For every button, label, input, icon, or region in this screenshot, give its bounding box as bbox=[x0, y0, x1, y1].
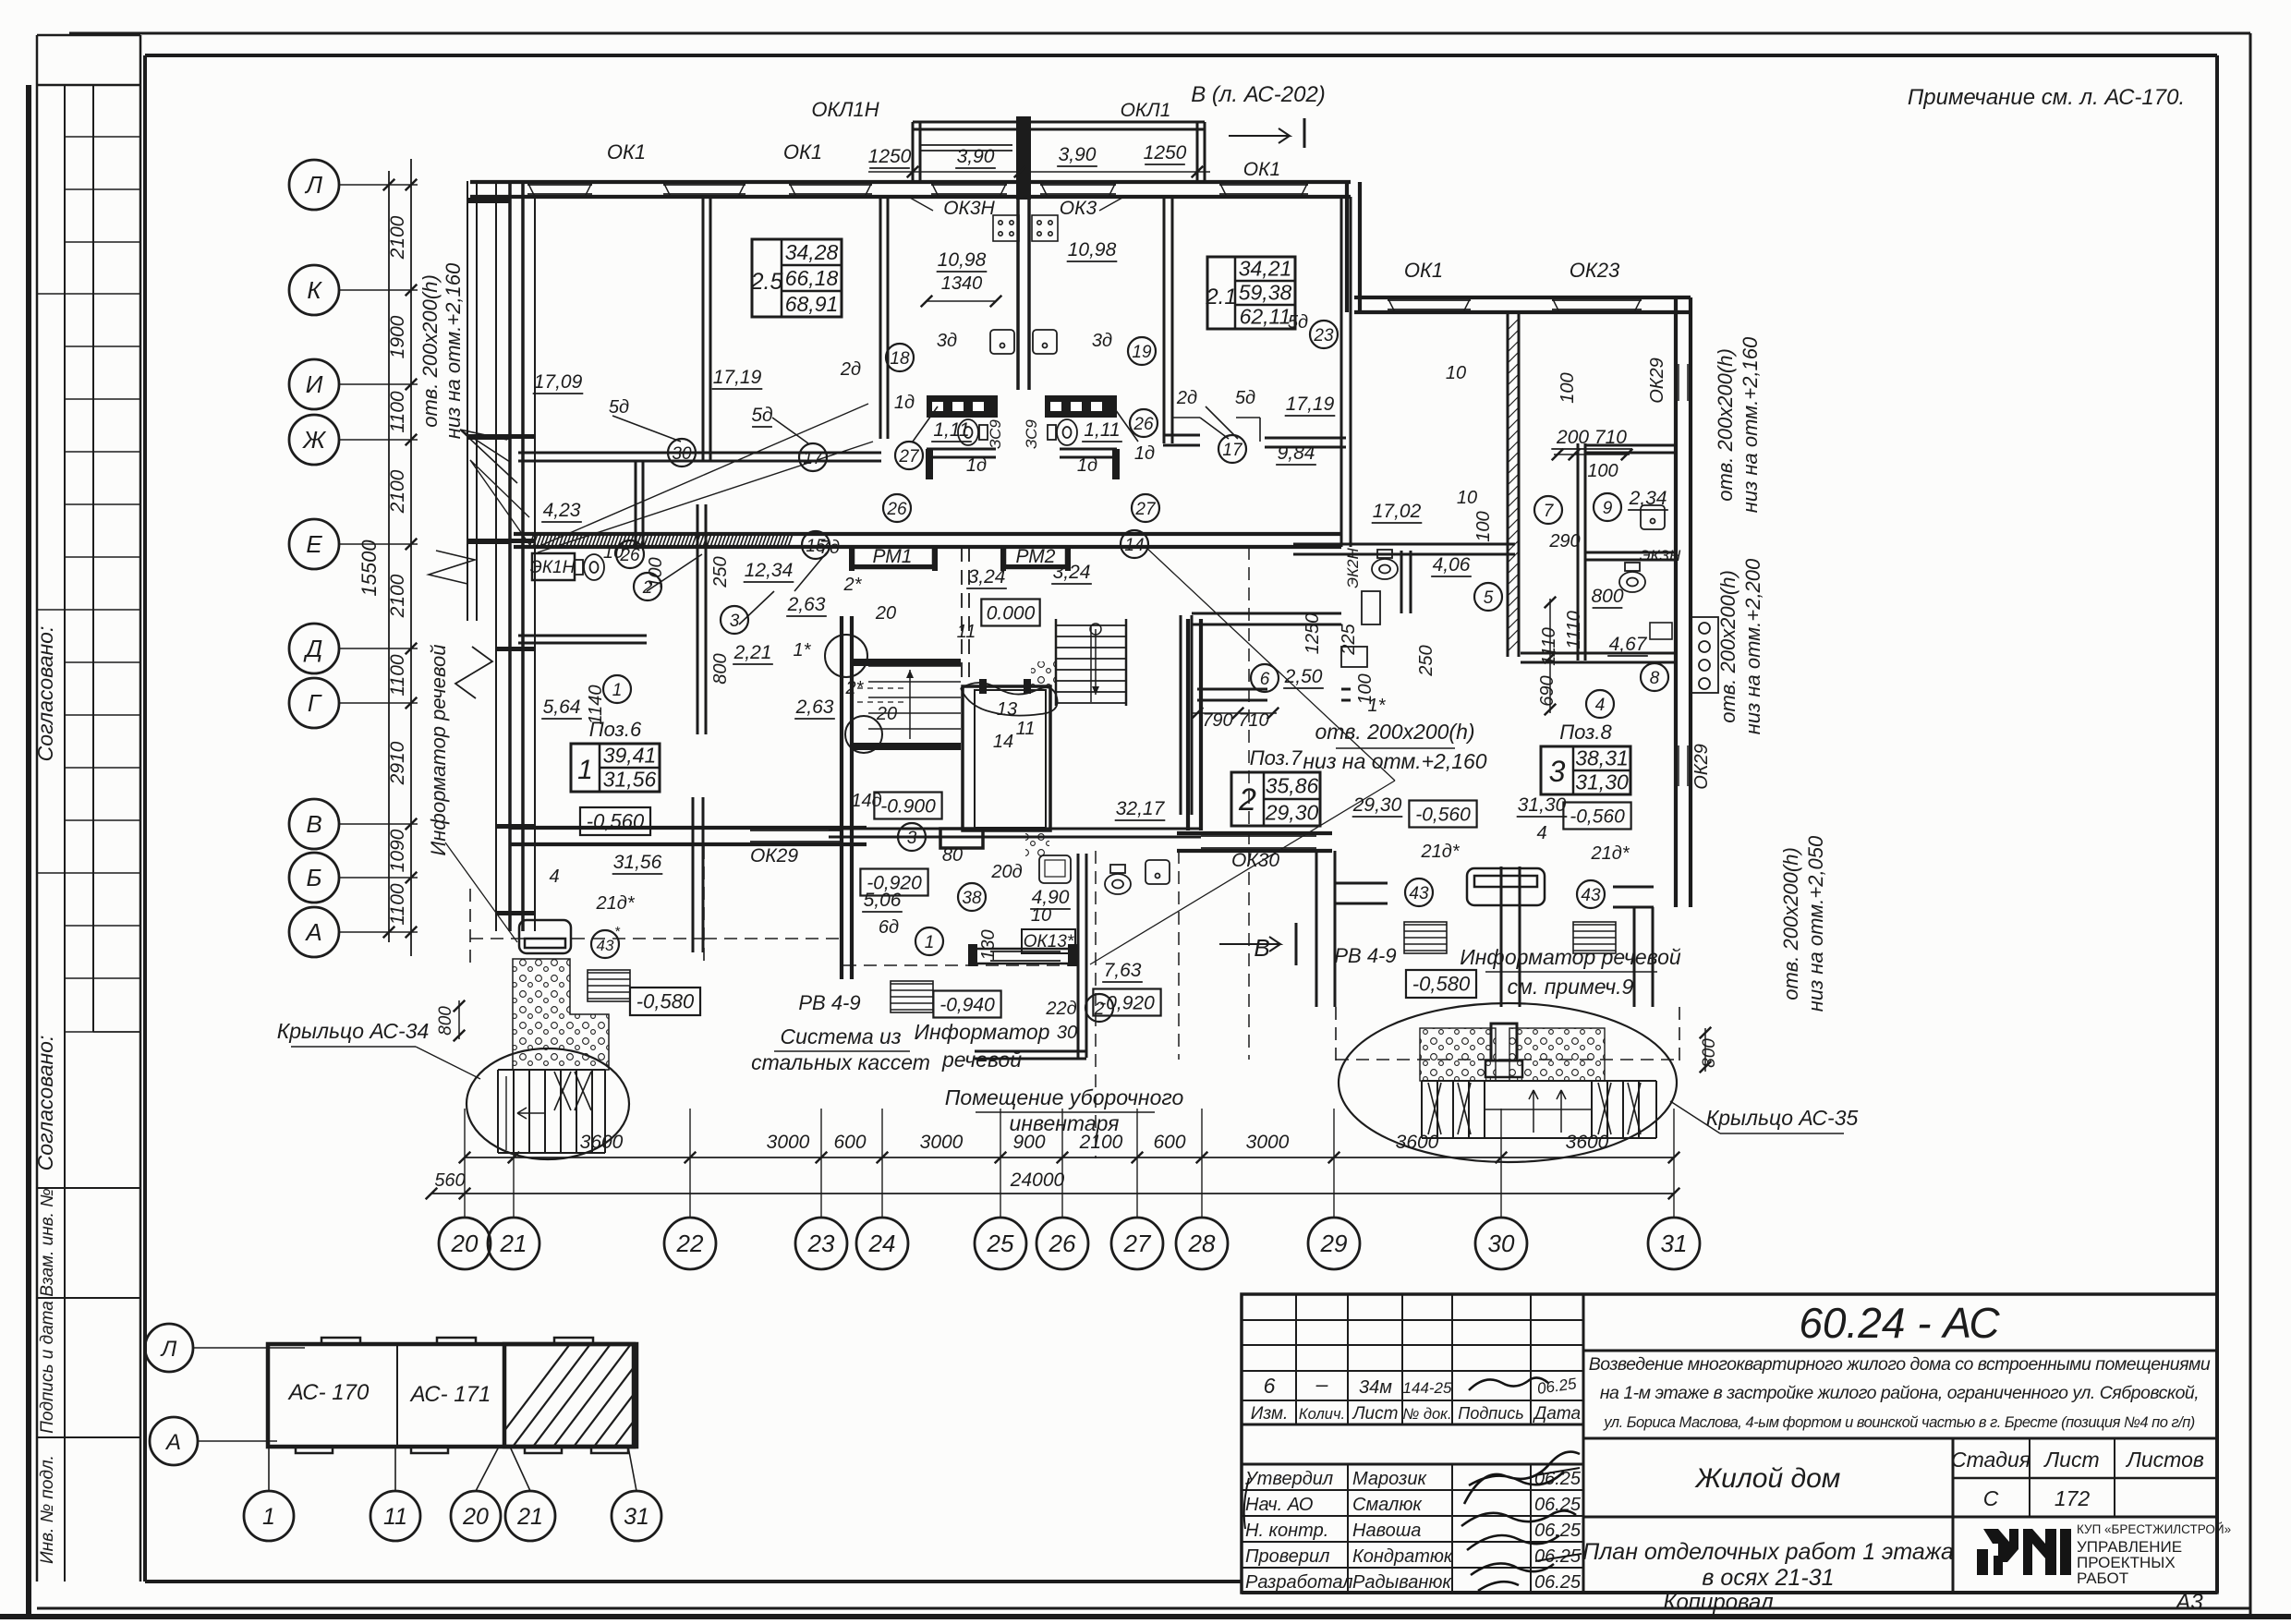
svg-text:ЗС9: ЗС9 bbox=[1023, 419, 1040, 449]
svg-text:Навоша: Навоша bbox=[1352, 1521, 1421, 1541]
svg-text:ОК1: ОК1 bbox=[783, 140, 822, 164]
svg-text:С: С bbox=[1983, 1486, 1999, 1510]
right porch center pier bbox=[1491, 1024, 1517, 1060]
project description 3 lines bbox=[1583, 1437, 2217, 1440]
svg-text:06.25: 06.25 bbox=[1534, 1546, 1582, 1567]
svg-text:1100: 1100 bbox=[387, 883, 408, 925]
svg-text:15500: 15500 bbox=[358, 539, 381, 597]
right block lower piers bbox=[1315, 851, 1318, 1007]
svg-text:5д: 5д bbox=[1235, 388, 1255, 408]
svg-text:2100: 2100 bbox=[387, 469, 408, 514]
svg-text:1*: 1* bbox=[794, 640, 812, 661]
svg-text:Инв. № подл.: Инв. № подл. bbox=[38, 1455, 57, 1564]
dashed axis line through stair bbox=[961, 547, 963, 685]
svg-text:31,56: 31,56 bbox=[603, 767, 657, 791]
svg-text:АС- 170: АС- 170 bbox=[287, 1380, 370, 1405]
svg-text:2д: 2д bbox=[840, 359, 861, 380]
svg-text:Согласовано:: Согласовано: bbox=[33, 1036, 57, 1171]
svg-text:Колич.: Колич. bbox=[1299, 1406, 1345, 1423]
svg-text:-0,560: -0,560 bbox=[1415, 804, 1471, 825]
svg-text:30: 30 bbox=[1488, 1230, 1515, 1257]
svg-text:20д: 20д bbox=[990, 862, 1022, 882]
svg-text:А: А bbox=[164, 1430, 181, 1455]
top exterior wall axis Л bbox=[470, 180, 1351, 184]
svg-text:Нач. АО: Нач. АО bbox=[1245, 1495, 1313, 1515]
svg-text:1: 1 bbox=[925, 933, 935, 952]
dim line 790 710 bbox=[1192, 712, 1277, 714]
svg-text:21: 21 bbox=[500, 1230, 527, 1257]
svg-text:17,09: 17,09 bbox=[534, 371, 583, 393]
right porch steps bbox=[1422, 1080, 1656, 1082]
drawing inner frame bbox=[145, 54, 2217, 57]
ramp end circles bbox=[825, 635, 867, 677]
svg-text:Утвердил: Утвердил bbox=[1244, 1469, 1333, 1489]
svg-text:Листов: Листов bbox=[2125, 1448, 2204, 1472]
svg-text:2100: 2100 bbox=[387, 215, 408, 260]
svg-text:3000: 3000 bbox=[1246, 1132, 1290, 1153]
svg-text:21д*: 21д* bbox=[595, 893, 635, 914]
svg-text:10,98: 10,98 bbox=[938, 249, 987, 271]
svg-text:на 1-м этаже в застройке жилог: на 1-м этаже в застройке жилого района, … bbox=[1600, 1383, 2199, 1403]
svg-text:ЭК1Н: ЭК1Н bbox=[530, 558, 576, 577]
svg-text:130: 130 bbox=[978, 929, 999, 960]
svg-text:низ на отм.+2,200: низ на отм.+2,200 bbox=[1741, 558, 1764, 734]
svg-text:РАБОТ: РАБОТ bbox=[2077, 1569, 2128, 1587]
svg-text:1250: 1250 bbox=[1303, 613, 1323, 655]
svg-text:3: 3 bbox=[730, 612, 740, 631]
svg-text:ОК3: ОК3 bbox=[1060, 198, 1097, 219]
svg-text:800: 800 bbox=[710, 653, 731, 684]
svg-text:Проверил: Проверил bbox=[1245, 1546, 1329, 1567]
svg-text:21д*: 21д* bbox=[1420, 842, 1460, 862]
svg-text:13: 13 bbox=[997, 699, 1017, 720]
svg-text:2д: 2д bbox=[1176, 388, 1197, 408]
svg-text:ОК13*: ОК13* bbox=[1024, 932, 1074, 951]
interior hatched wall right section bbox=[1507, 312, 1509, 657]
svg-text:5д: 5д bbox=[751, 405, 772, 426]
svg-text:28: 28 bbox=[1188, 1230, 1216, 1257]
right section top wall bbox=[1354, 296, 1691, 299]
svg-text:К: К bbox=[307, 276, 322, 304]
svg-text:-0,920: -0,920 bbox=[1099, 992, 1155, 1013]
dim line 1110 690 right bbox=[1549, 599, 1551, 713]
svg-text:речевой: речевой bbox=[941, 1048, 1022, 1072]
svg-text:-0.900: -0.900 bbox=[880, 795, 936, 817]
svg-text:Крыльцо АС-35: Крыльцо АС-35 bbox=[1706, 1106, 1859, 1130]
svg-text:4,67: 4,67 bbox=[1609, 634, 1648, 655]
svg-text:43: 43 bbox=[1581, 886, 1601, 905]
right section corridor walls bbox=[1180, 615, 1182, 815]
right exterior wall bbox=[1674, 297, 1678, 907]
svg-text:250: 250 bbox=[710, 556, 731, 588]
bench symbols near right entrances bbox=[1467, 868, 1545, 905]
svg-text:Информатор речевой: Информатор речевой bbox=[1460, 945, 1681, 969]
vestibule toilet and sink bbox=[1105, 865, 1131, 894]
stair flight right bbox=[1056, 624, 1126, 626]
svg-text:21: 21 bbox=[516, 1504, 543, 1530]
svg-text:см. примеч.9: см. примеч.9 bbox=[1508, 975, 1634, 999]
door swing marks bbox=[612, 406, 1238, 624]
svg-text:14: 14 bbox=[1124, 536, 1144, 555]
svg-text:27: 27 bbox=[1123, 1230, 1152, 1257]
svg-text:100: 100 bbox=[1473, 511, 1494, 541]
elevator shaft bbox=[963, 686, 1050, 830]
svg-text:в осях 21-31: в осях 21-31 bbox=[1702, 1565, 1834, 1591]
svg-text:30: 30 bbox=[1057, 1023, 1077, 1043]
svg-text:10: 10 bbox=[1446, 363, 1466, 383]
svg-text:6: 6 bbox=[1260, 670, 1270, 689]
svg-text:-0,580: -0,580 bbox=[1412, 973, 1471, 996]
svg-text:ОК23: ОК23 bbox=[1570, 259, 1620, 282]
info box apartment 2.1 bbox=[1207, 257, 1295, 329]
ОК13* box bbox=[1022, 929, 1075, 953]
svg-text:Б: Б bbox=[307, 864, 322, 891]
svg-text:-0,580: -0,580 bbox=[636, 990, 695, 1013]
key plan building outline bbox=[268, 1344, 636, 1447]
left porch X braces bbox=[554, 1072, 591, 1110]
svg-text:ул. Бориса Маслова, 4-ым форто: ул. Бориса Маслова, 4-ым фортом и воинск… bbox=[1603, 1414, 2195, 1431]
svg-text:43: 43 bbox=[597, 937, 614, 954]
svg-text:31: 31 bbox=[1661, 1230, 1688, 1257]
room 32,17 walls bbox=[1187, 830, 1189, 1188]
экран masonry walls bbox=[927, 395, 998, 418]
svg-text:Копировал: Копировал bbox=[1663, 1590, 1774, 1615]
svg-text:144-25: 144-25 bbox=[1403, 1379, 1452, 1397]
speaker hatch symbols bbox=[588, 970, 630, 1001]
apartment 2.1 bottom walls bbox=[1163, 434, 1200, 437]
svg-text:4: 4 bbox=[549, 867, 559, 887]
svg-text:3,24: 3,24 bbox=[968, 566, 1006, 588]
svg-text:800: 800 bbox=[1700, 1038, 1719, 1068]
svg-text:172: 172 bbox=[2055, 1486, 2091, 1510]
svg-text:26: 26 bbox=[1133, 415, 1154, 434]
svg-text:31,30: 31,30 bbox=[1575, 770, 1629, 794]
svg-text:1: 1 bbox=[262, 1504, 275, 1530]
svg-text:68,91: 68,91 bbox=[785, 292, 839, 316]
ЭК1Н bath bbox=[532, 553, 575, 580]
svg-text:РВ 4-9: РВ 4-9 bbox=[1334, 944, 1396, 967]
svg-text:17,02: 17,02 bbox=[1373, 501, 1422, 522]
left porch steps bbox=[498, 1070, 605, 1153]
apartment 2.1 right wall bbox=[1340, 197, 1343, 547]
svg-text:600: 600 bbox=[1153, 1132, 1185, 1153]
svg-text:-0,920: -0,920 bbox=[867, 872, 922, 893]
svg-text:Возведение многоквартирного жи: Возведение многоквартирного жилого дома … bbox=[1589, 1354, 2211, 1375]
right porch ellipse bbox=[1339, 1003, 1677, 1162]
svg-text:31: 31 bbox=[624, 1504, 649, 1530]
svg-text:РМ2: РМ2 bbox=[1016, 546, 1056, 567]
svg-text:3,90: 3,90 bbox=[957, 146, 995, 167]
svg-text:22: 22 bbox=[676, 1230, 704, 1257]
axis drop lines bbox=[464, 1109, 466, 1218]
svg-text:4,06: 4,06 bbox=[1433, 554, 1471, 576]
svg-text:20: 20 bbox=[875, 603, 896, 624]
svg-text:1340: 1340 bbox=[941, 273, 983, 294]
svg-text:31,56: 31,56 bbox=[613, 852, 662, 873]
svg-text:отв. 200х200(h): отв. 200х200(h) bbox=[1779, 847, 1802, 1000]
svg-text:1*: 1* bbox=[1368, 696, 1387, 716]
landing cloud bbox=[961, 683, 1058, 716]
svg-text:1110: 1110 bbox=[1564, 611, 1584, 649]
starred circles bbox=[591, 930, 619, 958]
svg-text:11: 11 bbox=[383, 1504, 407, 1530]
svg-text:39,41: 39,41 bbox=[603, 743, 657, 767]
svg-text:290: 290 bbox=[1548, 531, 1580, 551]
svg-text:30: 30 bbox=[672, 444, 692, 464]
svg-text:17: 17 bbox=[1222, 441, 1243, 460]
total 15500 line bbox=[388, 171, 390, 942]
svg-text:низ на отм.+2,160: низ на отм.+2,160 bbox=[442, 262, 465, 439]
svg-text:Подпись: Подпись bbox=[1458, 1404, 1523, 1423]
svg-text:ЭК2Н: ЭК2Н bbox=[1344, 548, 1362, 588]
svg-text:0.000: 0.000 bbox=[987, 602, 1036, 624]
svg-text:29: 29 bbox=[1320, 1230, 1348, 1257]
Жилой дом section bbox=[1583, 1516, 2217, 1519]
svg-text:Подпись и дата: Подпись и дата bbox=[38, 1301, 57, 1434]
svg-text:10: 10 bbox=[603, 542, 624, 563]
svg-text:низ на отм.+2,050: низ на отм.+2,050 bbox=[1804, 835, 1827, 1012]
svg-text:4,23: 4,23 bbox=[543, 500, 581, 521]
svg-text:5д: 5д bbox=[1288, 312, 1308, 333]
loggia face lines bbox=[467, 181, 468, 621]
key plan leader lines bbox=[193, 1347, 305, 1349]
svg-text:План отделочных работ 1 этажа: План отделочных работ 1 этажа bbox=[1582, 1539, 1954, 1565]
svg-text:Разработал: Разработал bbox=[1245, 1572, 1353, 1593]
Стадия Лист Листов bbox=[1953, 1477, 2217, 1480]
svg-text:11: 11 bbox=[957, 622, 976, 642]
bottom wall left block with ОК29 bbox=[511, 826, 867, 830]
upper rooms door wall stub bbox=[635, 461, 637, 547]
svg-text:600: 600 bbox=[833, 1132, 866, 1153]
svg-text:ОКЛ1: ОКЛ1 bbox=[1121, 100, 1171, 121]
bottom axis circles bbox=[439, 1218, 491, 1269]
right porch paving bbox=[1420, 1028, 1496, 1081]
svg-text:1140: 1140 bbox=[586, 685, 606, 724]
apartment 2.1 left wall bbox=[1163, 199, 1166, 443]
svg-text:Система из: Система из bbox=[780, 1024, 901, 1048]
svg-text:отв. 200х200(h): отв. 200х200(h) bbox=[1315, 720, 1474, 744]
svg-text:06.25: 06.25 bbox=[1534, 1572, 1582, 1593]
svg-text:Взам. инв. №: Взам. инв. № bbox=[38, 1188, 57, 1297]
svg-text:И: И bbox=[306, 370, 323, 398]
svg-text:2100: 2100 bbox=[387, 574, 408, 618]
svg-text:25: 25 bbox=[987, 1230, 1014, 1257]
svg-text:Примечание см. л. АС-170.: Примечание см. л. АС-170. bbox=[1908, 85, 2185, 110]
svg-text:Поз.7: Поз.7 bbox=[1250, 746, 1303, 770]
svg-text:2,50: 2,50 bbox=[1284, 666, 1323, 687]
dotted column marks bbox=[1025, 661, 1055, 856]
svg-text:31,30: 31,30 bbox=[1518, 794, 1567, 816]
svg-text:АС- 171: АС- 171 bbox=[409, 1382, 491, 1407]
svg-text:-0,560: -0,560 bbox=[587, 810, 645, 833]
signatures scribble bbox=[1461, 1452, 1580, 1591]
svg-text:59,38: 59,38 bbox=[1239, 280, 1292, 304]
svg-text:800: 800 bbox=[1591, 586, 1623, 607]
svg-text:№ док.: № док. bbox=[1402, 1406, 1451, 1423]
svg-text:10: 10 bbox=[1457, 488, 1477, 508]
svg-text:3000: 3000 bbox=[767, 1132, 810, 1153]
svg-text:1100: 1100 bbox=[387, 391, 408, 432]
svg-text:4: 4 bbox=[1536, 823, 1546, 843]
svg-text:Крыльцо АС-34: Крыльцо АС-34 bbox=[277, 1019, 430, 1043]
staff table rows bbox=[1242, 1463, 1583, 1466]
room6 cabinet bbox=[1341, 647, 1367, 667]
svg-text:200 710: 200 710 bbox=[1556, 427, 1627, 448]
svg-text:ЗС9: ЗС9 bbox=[987, 419, 1004, 449]
svg-text:20: 20 bbox=[876, 704, 897, 724]
svg-text:5,64: 5,64 bbox=[543, 697, 581, 718]
svg-text:Е: Е bbox=[306, 530, 322, 558]
svg-text:560: 560 bbox=[434, 1170, 465, 1191]
left axis circles bbox=[289, 160, 339, 210]
svg-text:38,31: 38,31 bbox=[1575, 745, 1629, 770]
svg-text:6д: 6д bbox=[879, 917, 899, 938]
svg-text:Л: Л bbox=[304, 171, 322, 199]
cassette hatched wall bbox=[529, 534, 793, 547]
svg-text:РВ 4-9: РВ 4-9 bbox=[798, 991, 860, 1014]
svg-text:ЭКЗН: ЭКЗН bbox=[1640, 547, 1681, 564]
key plan axis circle Л bbox=[145, 1324, 193, 1372]
signature squiggle top bbox=[1469, 1377, 1548, 1390]
svg-text:2.5: 2.5 bbox=[750, 269, 783, 295]
dashed lines lower area bbox=[704, 938, 843, 939]
break squiggle left wall bbox=[429, 551, 475, 584]
svg-text:21д*: 21д* bbox=[1590, 843, 1630, 864]
ОК13 window row bbox=[975, 948, 1075, 951]
left porch arrow bbox=[517, 1108, 545, 1119]
svg-text:2,34: 2,34 bbox=[1629, 488, 1667, 509]
svg-text:34м: 34м bbox=[1359, 1377, 1392, 1398]
left stamp column grid bbox=[37, 34, 140, 37]
svg-text:14: 14 bbox=[993, 732, 1013, 752]
svg-text:10: 10 bbox=[1031, 905, 1051, 926]
РМ1 РМ2 niches bbox=[854, 547, 933, 568]
svg-text:1,11: 1,11 bbox=[933, 419, 969, 441]
total 24000 line bbox=[431, 1193, 1674, 1194]
svg-text:17,19: 17,19 bbox=[1286, 394, 1335, 415]
svg-text:низ на отм.+2,160: низ на отм.+2,160 bbox=[1739, 336, 1762, 513]
svg-text:В (л. АС-202): В (л. АС-202) bbox=[1191, 82, 1326, 107]
rooms 9 and 8 partitions bbox=[1577, 443, 1580, 661]
svg-text:26: 26 bbox=[886, 500, 907, 519]
svg-text:43: 43 bbox=[1409, 884, 1429, 903]
core toilets bbox=[958, 419, 988, 445]
svg-text:Марозик: Марозик bbox=[1352, 1469, 1427, 1489]
svg-text:Лист: Лист bbox=[1352, 1404, 1399, 1424]
svg-text:34,21: 34,21 bbox=[1239, 256, 1292, 280]
svg-text:20: 20 bbox=[462, 1504, 489, 1530]
svg-text:Смалюк: Смалюк bbox=[1352, 1495, 1423, 1515]
mid wall right section bbox=[1293, 543, 1515, 546]
info box apartment 2.5 bbox=[752, 239, 842, 317]
svg-text:отв. 200х200(h): отв. 200х200(h) bbox=[418, 274, 442, 428]
room number circles bbox=[603, 675, 631, 703]
svg-text:20: 20 bbox=[451, 1230, 479, 1257]
svg-text:1: 1 bbox=[577, 755, 593, 785]
svg-text:29,30: 29,30 bbox=[1352, 794, 1402, 816]
svg-text:ОК1: ОК1 bbox=[1404, 259, 1443, 282]
mid corridor wall (axis Е) bbox=[514, 532, 1341, 536]
svg-text:Кондратюк: Кондратюк bbox=[1352, 1546, 1454, 1567]
svg-text:2910: 2910 bbox=[387, 741, 408, 785]
svg-text:5д: 5д bbox=[609, 397, 629, 418]
svg-text:-0,560: -0,560 bbox=[1570, 806, 1625, 827]
столб pier bbox=[940, 829, 983, 848]
svg-text:низ на отм.+2,160: низ на отм.+2,160 bbox=[1303, 749, 1486, 773]
svg-text:35,86: 35,86 bbox=[1266, 774, 1319, 798]
long diagonal leaders upper-left bbox=[538, 404, 868, 547]
interior wall 17,09/17,19 bbox=[702, 197, 705, 462]
svg-text:Лист: Лист bbox=[2043, 1448, 2099, 1472]
logo КУП Брестжилстрой bbox=[1977, 1529, 2071, 1575]
svg-text:1д: 1д bbox=[1077, 455, 1097, 476]
title block left table bbox=[1295, 1294, 1297, 1424]
key plan axis circle А bbox=[150, 1417, 198, 1465]
svg-text:–: – bbox=[1315, 1372, 1328, 1396]
svg-text:А: А bbox=[304, 918, 321, 946]
step wall between top sections bbox=[1345, 182, 1349, 312]
svg-text:ОКЛ1Н: ОКЛ1Н bbox=[811, 98, 879, 121]
svg-text:38: 38 bbox=[962, 889, 982, 908]
svg-text:32,17: 32,17 bbox=[1116, 798, 1166, 819]
svg-text:ОК29: ОК29 bbox=[1691, 744, 1712, 790]
svg-text:800: 800 bbox=[436, 1006, 455, 1036]
svg-text:60.24 - АС: 60.24 - АС bbox=[1799, 1299, 2000, 1347]
svg-text:7: 7 bbox=[1544, 502, 1555, 521]
svg-text:3,90: 3,90 bbox=[1059, 144, 1097, 165]
svg-text:24000: 24000 bbox=[1010, 1170, 1065, 1191]
svg-text:1д: 1д bbox=[894, 393, 915, 413]
svg-text:РМ1: РМ1 bbox=[873, 546, 913, 567]
svg-text:66,18: 66,18 bbox=[785, 266, 839, 290]
svg-text:100: 100 bbox=[1587, 461, 1618, 481]
svg-text:8: 8 bbox=[1650, 669, 1660, 688]
title block right: code 60.24-АС bbox=[1583, 1350, 2217, 1352]
800 dims porches bbox=[458, 1000, 460, 1039]
svg-text:34,28: 34,28 bbox=[785, 240, 839, 264]
svg-text:Изм.: Изм. bbox=[1251, 1404, 1289, 1424]
svg-text:1100: 1100 bbox=[387, 654, 408, 696]
svg-text:Информатор: Информатор bbox=[915, 1020, 1050, 1044]
svg-text:23: 23 bbox=[807, 1230, 835, 1257]
svg-text:3000: 3000 bbox=[920, 1132, 964, 1153]
top bay ОКЛ1Н walls bbox=[913, 121, 1205, 124]
svg-text:22д: 22д bbox=[1045, 999, 1076, 1019]
svg-text:ОК30: ОК30 bbox=[1231, 850, 1279, 871]
svg-text:КУП «БРЕСТЖИЛСТРОЙ»: КУП «БРЕСТЖИЛСТРОЙ» bbox=[2077, 1522, 2231, 1536]
svg-text:Н. контр.: Н. контр. bbox=[1245, 1521, 1328, 1541]
svg-text:1,11: 1,11 bbox=[1084, 419, 1120, 441]
svg-text:Жилой дом: Жилой дом bbox=[1694, 1463, 1841, 1494]
svg-text:ОК1: ОК1 bbox=[1243, 159, 1280, 180]
svg-text:10,98: 10,98 bbox=[1068, 239, 1117, 261]
room8 stove bbox=[1691, 617, 1718, 693]
key plan bottom circles bbox=[244, 1491, 294, 1541]
svg-text:инвентаря: инвентаря bbox=[1010, 1111, 1120, 1135]
bath bottom walls bbox=[927, 448, 996, 451]
svg-text:Поз.8: Поз.8 bbox=[1559, 721, 1612, 744]
svg-text:ОК29: ОК29 bbox=[750, 845, 798, 867]
svg-text:2,63: 2,63 bbox=[787, 594, 826, 615]
svg-text:100: 100 bbox=[646, 557, 666, 588]
svg-text:62,11: 62,11 bbox=[1240, 304, 1291, 328]
svg-text:9,84: 9,84 bbox=[1278, 442, 1315, 464]
svg-text:Ж: Ж bbox=[301, 426, 327, 454]
svg-text:11: 11 bbox=[1016, 719, 1036, 739]
canopy dashes left bbox=[470, 938, 704, 939]
svg-text:2*: 2* bbox=[843, 575, 863, 595]
svg-text:27: 27 bbox=[898, 447, 920, 467]
